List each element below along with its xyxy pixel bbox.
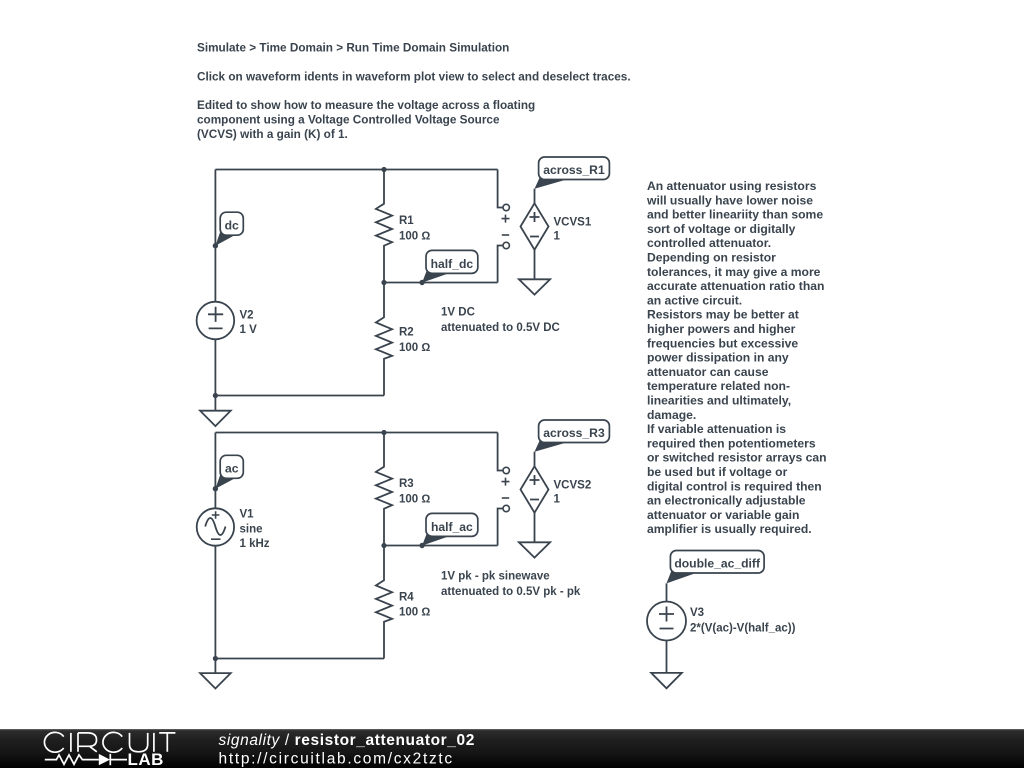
- svg-text:100 Ω: 100 Ω: [399, 342, 430, 354]
- svg-text:1 kHz: 1 kHz: [240, 538, 270, 550]
- svg-text:1V DC: 1V DC: [441, 307, 475, 319]
- svg-text:higher powers and higher: higher powers and higher: [647, 322, 796, 336]
- voltage source V1 sine: [197, 508, 234, 545]
- wire: C2 bottom horizontal: [215, 658, 384, 660]
- note: 1V pk-pk annotation: [441, 571, 581, 598]
- wire: VCVS2 top lead: [534, 452, 536, 467]
- VCVS2 minus terminal circle: [503, 505, 509, 511]
- ground G3: [200, 673, 231, 688]
- svg-text:1 V: 1 V: [240, 324, 258, 336]
- svg-text:R2: R2: [399, 327, 414, 339]
- footer bar: [0, 729, 1024, 768]
- ground G5 under V3: [651, 673, 682, 688]
- svg-text:will usually have lower noise: will usually have lower noise: [646, 193, 813, 207]
- wire: C1 bottom horizontal: [215, 395, 384, 397]
- svg-text:frequencies but excessive: frequencies but excessive: [647, 336, 798, 350]
- wire: stub to ground G1: [214, 396, 216, 411]
- svg-text:attenuator can cause: attenuator can cause: [647, 365, 769, 379]
- svg-text:signality / resistor_attenuato: signality / resistor_attenuator_02: [219, 732, 475, 749]
- logo diode symbol: [99, 754, 127, 765]
- svg-text:linearities and ultimately,: linearities and ultimately,: [647, 394, 791, 408]
- logo resistor symbol: [45, 755, 99, 764]
- svg-text:R1: R1: [399, 215, 414, 227]
- svg-text:damage.: damage.: [647, 408, 696, 422]
- label VCVS1 value: [554, 216, 592, 242]
- svg-text:sort of voltage or digitally: sort of voltage or digitally: [647, 222, 796, 236]
- svg-text:100 Ω: 100 Ω: [399, 230, 430, 242]
- resistor R2: [376, 283, 392, 396]
- ground G4 under VCVS2: [519, 542, 550, 557]
- svg-text:component using a Voltage Cont: component using a Voltage Controlled Vol…: [197, 113, 500, 126]
- svg-text:digital control is required th: digital control is required then: [647, 479, 822, 493]
- node junction dot mid divider ac: [381, 543, 386, 548]
- VCVS1 diamond: [521, 203, 549, 249]
- svg-text:V3: V3: [690, 607, 704, 619]
- wire: V2 bottom to ground rail: [214, 339, 216, 395]
- label R4 value: [399, 591, 430, 618]
- svg-text:An attenuator using resistors: An attenuator using resistors: [647, 179, 817, 193]
- node label half_dc bubble: [419, 250, 477, 285]
- wire: C1 top horizontal: [215, 169, 497, 171]
- wire: VCVS1 top lead: [534, 189, 536, 204]
- VCVS1 terminal minus sign: [502, 234, 509, 236]
- svg-text:temperature related non-: temperature related non-: [647, 379, 790, 393]
- VCVS2 diamond: [521, 466, 549, 512]
- svg-text:across_R3: across_R3: [543, 426, 605, 440]
- node label half_ac bubble: [419, 513, 477, 548]
- svg-text:attenuated to 0.5V pk - pk: attenuated to 0.5V pk - pk: [441, 586, 581, 598]
- svg-text:amplifier is usually required.: amplifier is usually required.: [647, 522, 812, 536]
- wire: V3 bottom lead: [666, 641, 668, 673]
- svg-text:(VCVS) with a gain (K) of 1.: (VCVS) with a gain (K) of 1.: [197, 128, 348, 141]
- svg-text:Depending on resistor: Depending on resistor: [647, 251, 776, 265]
- svg-text:1: 1: [554, 231, 561, 243]
- node label dc bubble: [213, 212, 244, 248]
- logo LAB text: [128, 750, 164, 768]
- note: waveform idents line: [197, 71, 631, 84]
- wire: V1 bottom to ground rail: [214, 546, 216, 659]
- voltage source V3: [647, 602, 686, 641]
- wire: C2 left vertical to V1: [214, 433, 216, 509]
- svg-text:1V pk - pk sinewave: 1V pk - pk sinewave: [441, 571, 550, 583]
- note: 1V DC annotation: [441, 307, 560, 334]
- VCVS2 terminal plus sign: [502, 478, 510, 486]
- node label ac bubble: [213, 455, 244, 491]
- resistor R1: [376, 170, 392, 283]
- label V3 value: [690, 607, 796, 635]
- wire: C2 right drop to VCVS2 plus terminal: [498, 433, 503, 471]
- node label across_R1 bubble: [535, 157, 610, 189]
- label V1 value: [240, 509, 270, 551]
- resistor R3: [376, 433, 392, 546]
- svg-text:100 Ω: 100 Ω: [399, 607, 430, 619]
- svg-text:V2: V2: [240, 310, 254, 322]
- VCVS1 plus terminal circle: [503, 204, 509, 210]
- svg-text:required then potentiometers: required then potentiometers: [647, 436, 816, 450]
- svg-text:R3: R3: [399, 478, 414, 490]
- svg-text:Edited to show how to measure: Edited to show how to measure the voltag…: [197, 99, 535, 112]
- node label across_R3 bubble: [535, 420, 610, 452]
- svg-text:double_ac_diff: double_ac_diff: [674, 557, 761, 571]
- ground G2 under VCVS1: [519, 279, 550, 294]
- svg-text:controlled attenuator.: controlled attenuator.: [647, 236, 771, 250]
- svg-text:half_dc: half_dc: [431, 257, 474, 271]
- svg-text:If variable attenuation is: If variable attenuation is: [647, 422, 786, 436]
- footer title text: [219, 732, 475, 749]
- svg-text:VCVS2: VCVS2: [554, 479, 592, 491]
- svg-text:across_R1: across_R1: [543, 163, 605, 177]
- svg-text:an active circuit.: an active circuit.: [647, 293, 742, 307]
- svg-text:Resistors may be better at: Resistors may be better at: [647, 308, 799, 322]
- label R1 value: [399, 215, 430, 242]
- svg-text:an electronically adjustable: an electronically adjustable: [647, 494, 806, 508]
- node junction dot bottom left C2: [213, 656, 218, 661]
- node junction dot bottom left C1: [213, 393, 218, 398]
- wire: C1 left vertical to V2: [214, 170, 216, 302]
- svg-text:dc: dc: [225, 219, 239, 233]
- note: attenuator paragraph right column: [646, 179, 827, 536]
- wire: C2 rise to VCVS2 minus terminal: [498, 509, 503, 546]
- label VCVS2 value: [554, 479, 592, 505]
- svg-text:R4: R4: [399, 591, 414, 603]
- svg-text:V1: V1: [240, 509, 255, 521]
- svg-text:sine: sine: [240, 524, 263, 536]
- label R2 value: [399, 327, 430, 355]
- wire: C1 right drop to VCVS1 plus terminal: [498, 170, 503, 208]
- svg-text:power dissipation in any: power dissipation in any: [647, 351, 789, 365]
- ground G1: [200, 411, 231, 426]
- svg-text:tolerances, it may give a more: tolerances, it may give a more: [647, 265, 821, 279]
- node junction dot top of R3: [381, 430, 386, 435]
- svg-text:accurate attenuation ratio tha: accurate attenuation ratio than: [647, 279, 824, 293]
- wire: C2 mid horizontal half_ac: [384, 545, 498, 547]
- wire: VCVS1 bottom lead: [534, 250, 536, 280]
- label R3 value: [399, 478, 430, 505]
- VCVS2 plus terminal circle: [503, 467, 509, 473]
- svg-text:attenuator or variable gain: attenuator or variable gain: [647, 508, 799, 522]
- wire: stub to ground G3: [214, 659, 216, 674]
- footer url text: [219, 750, 454, 767]
- voltage source V2: [197, 302, 235, 340]
- svg-text:http://circuitlab.com/cx2tztc: http://circuitlab.com/cx2tztc: [219, 750, 454, 767]
- wire: C1 rise to VCVS1 minus terminal: [498, 246, 503, 283]
- note: edited paragraph: [197, 99, 535, 141]
- svg-text:attenuated to 0.5V DC: attenuated to 0.5V DC: [441, 322, 560, 334]
- logo CIRCUIT wordmark: [44, 732, 175, 752]
- svg-text:be used but if voltage or: be used but if voltage or: [647, 465, 788, 479]
- svg-text:2*(V(ac)-V(half_ac)): 2*(V(ac)-V(half_ac)): [690, 623, 796, 635]
- label V2 value: [240, 310, 258, 337]
- svg-text:Simulate > Time Domain > Run T: Simulate > Time Domain > Run Time Domain…: [197, 42, 509, 55]
- svg-text:or switched resistor arrays ca: or switched resistor arrays can: [647, 451, 827, 465]
- wire: C2 top horizontal: [215, 432, 497, 434]
- wire: C1 mid horizontal half_dc: [384, 282, 498, 284]
- VCVS1 terminal plus sign: [502, 215, 510, 223]
- svg-text:half_ac: half_ac: [431, 520, 473, 534]
- note: simulate instructions line 1: [197, 42, 509, 55]
- svg-text:1: 1: [554, 494, 561, 506]
- svg-text:100 Ω: 100 Ω: [399, 493, 430, 505]
- svg-text:Click on waveform idents in wa: Click on waveform idents in waveform plo…: [197, 71, 631, 84]
- node label double_ac_diff bubble: [667, 551, 765, 584]
- wire: V3 top lead: [666, 583, 668, 601]
- VCVS1 minus terminal circle: [503, 242, 509, 248]
- svg-text:and better lineariity than som: and better lineariity than some: [647, 208, 823, 222]
- VCVS2 terminal minus sign: [502, 497, 509, 499]
- svg-text:ac: ac: [225, 462, 239, 476]
- resistor R4: [376, 546, 392, 659]
- wire: VCVS2 bottom lead: [534, 513, 536, 543]
- node junction dot mid divider dc: [381, 280, 386, 285]
- svg-text:LAB: LAB: [128, 750, 164, 768]
- svg-text:VCVS1: VCVS1: [554, 216, 592, 228]
- node junction dot top of R1: [381, 167, 386, 172]
